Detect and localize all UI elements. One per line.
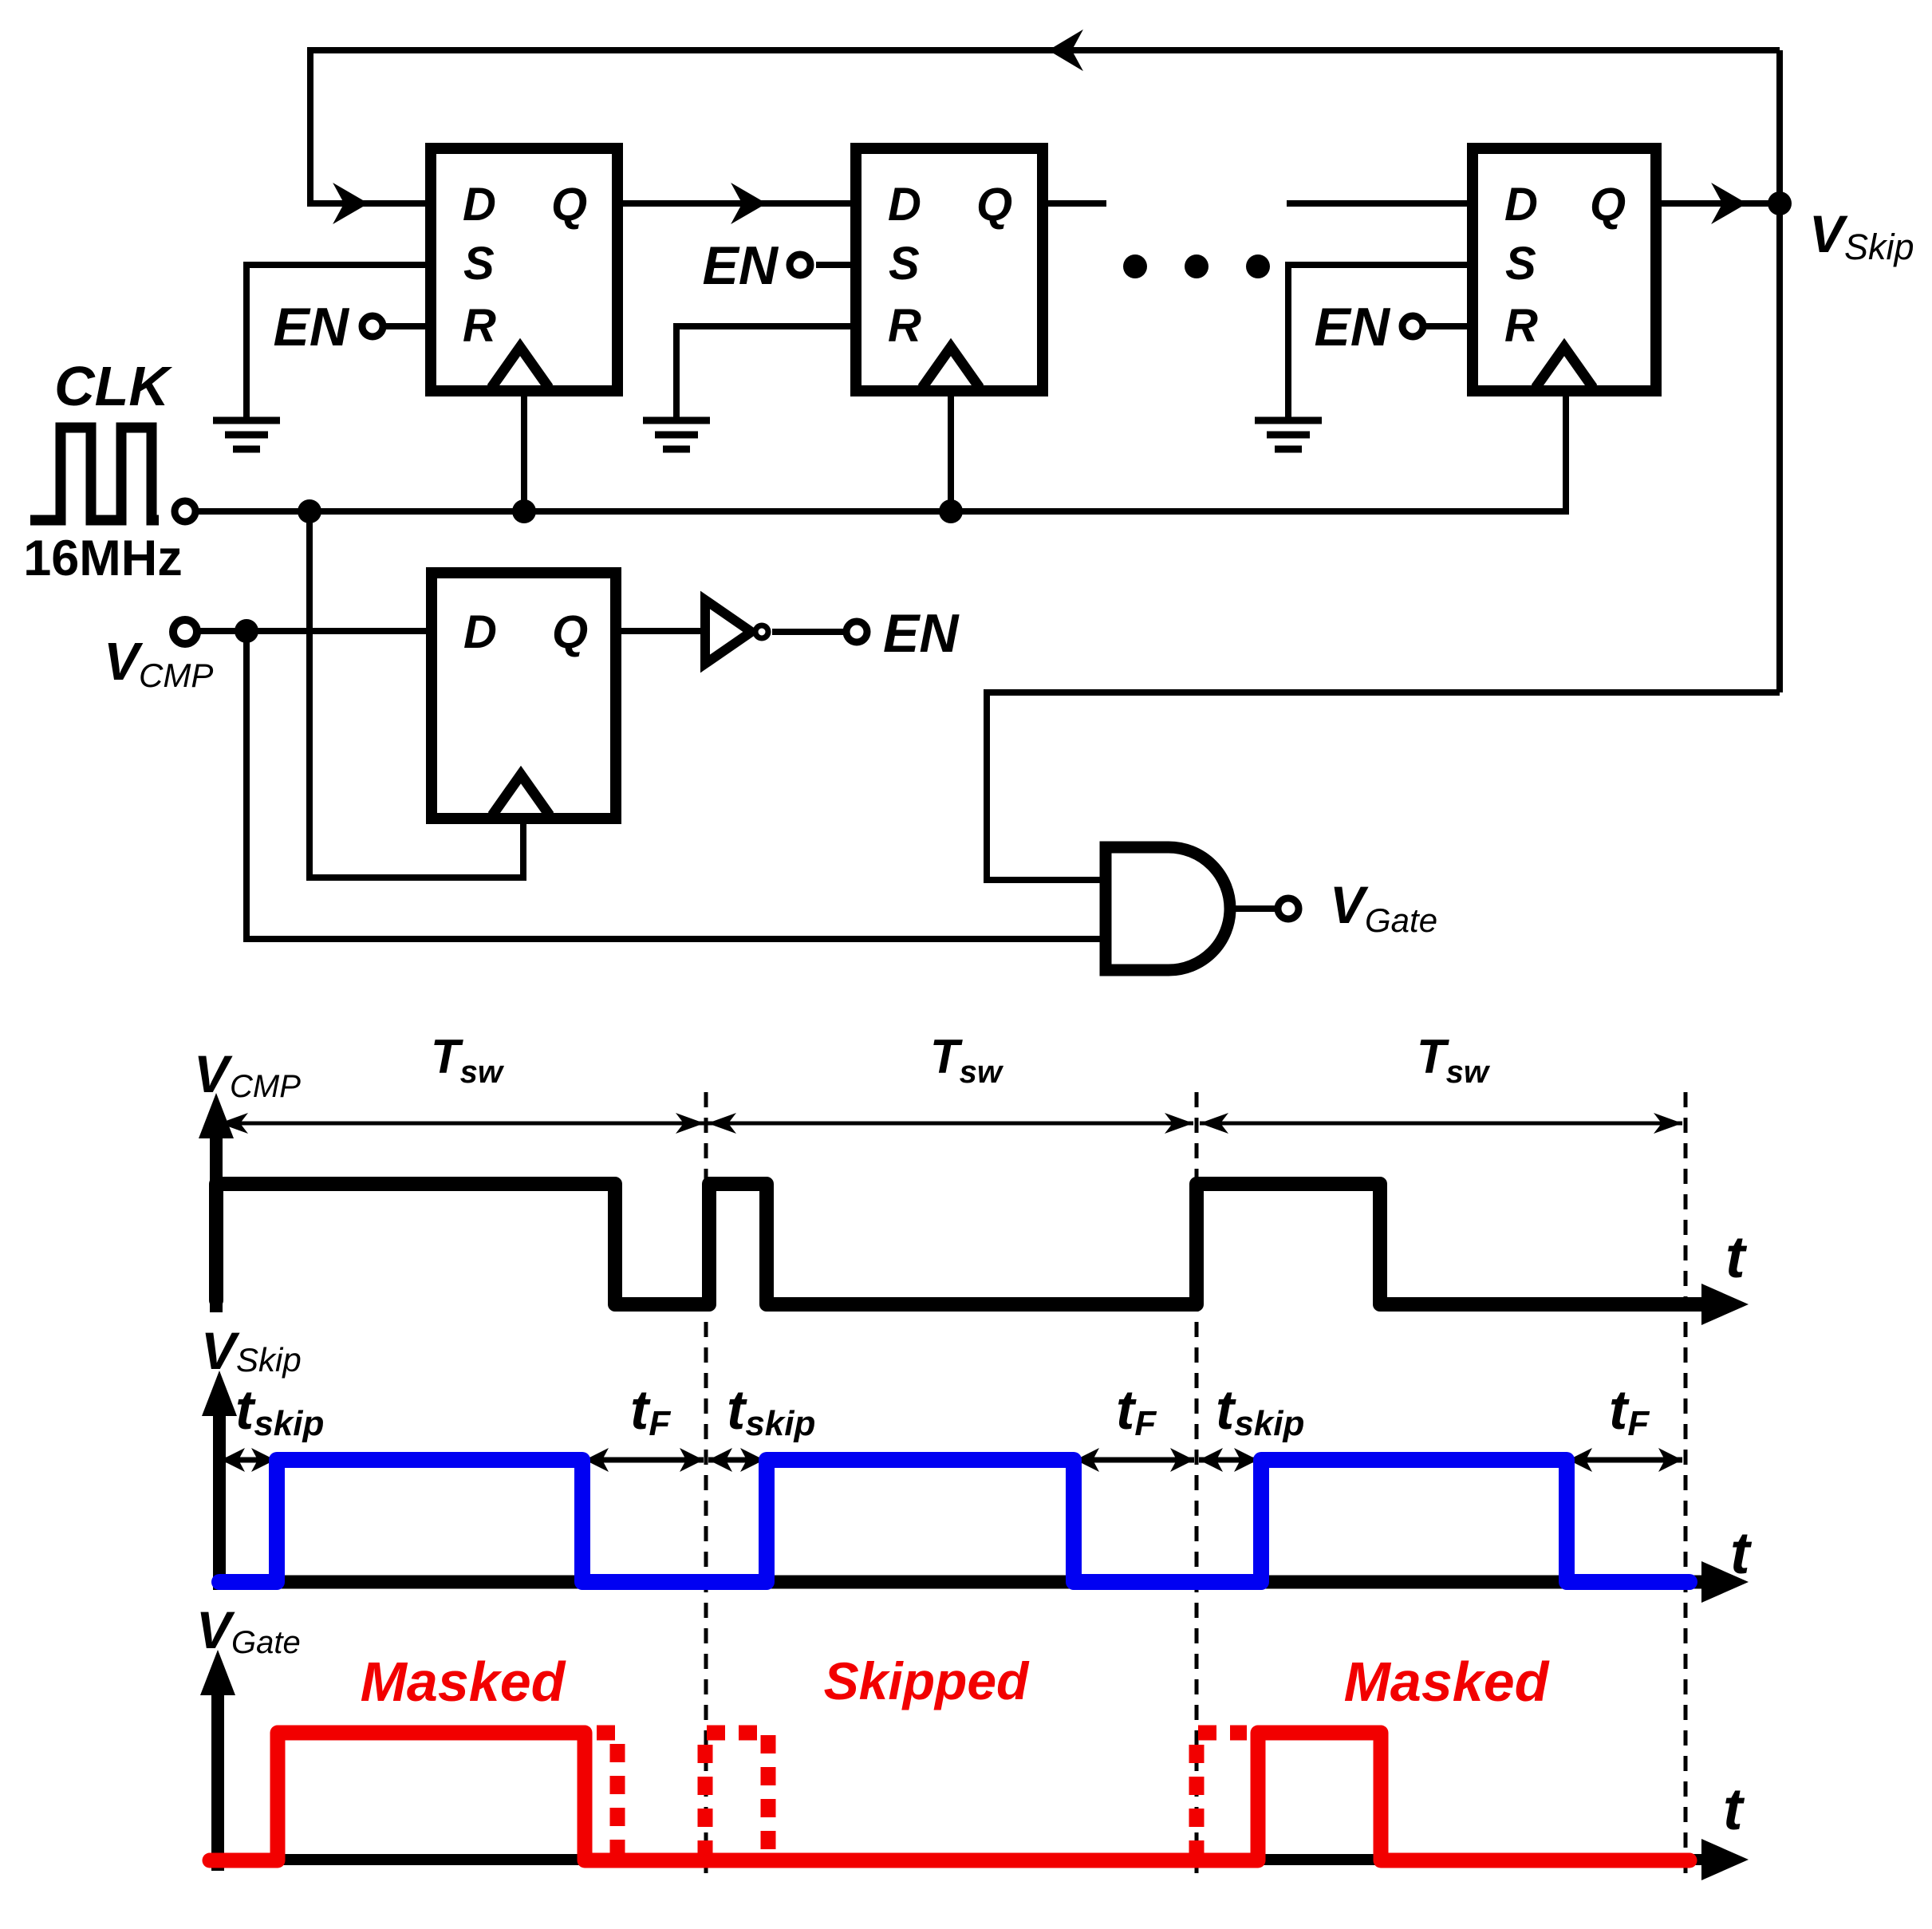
arrowhead on Q3 wire: [1714, 186, 1745, 221]
ground GND2: [643, 420, 710, 449]
svg-text:CLK: CLK: [54, 355, 172, 417]
svg-text:D: D: [1504, 179, 1538, 231]
VCMP time axis arrowhead: [1701, 1284, 1749, 1325]
Tsw dimension arrow 1: [219, 1122, 704, 1126]
svg-text:S: S: [889, 238, 920, 290]
svg-text:EN: EN: [274, 297, 350, 357]
VSkip time axis arrowhead: [1701, 1561, 1749, 1603]
tF dimension arrow 1: [585, 1458, 704, 1463]
inverter U1 triangle: [705, 600, 751, 664]
svg-text:R: R: [1504, 300, 1538, 352]
VGate output terminal circle: [1278, 898, 1299, 919]
FF3 clock triangle: [1536, 347, 1593, 388]
svg-text:Masked: Masked: [1344, 1651, 1550, 1713]
svg-text:EN: EN: [703, 235, 779, 296]
VGate dashed red: skipped pulse: [705, 1733, 768, 1859]
dashed timebase line 2: [1195, 1092, 1199, 1880]
NAND gate U2 body: [1106, 847, 1230, 970]
svg-text:Skip: Skip: [236, 1341, 302, 1379]
arrowhead into FF1 D (pointing right): [336, 186, 366, 221]
flip-flop FF3 box: [1473, 148, 1656, 391]
FF2 clock triangle: [922, 347, 980, 388]
tskip dimension arrow 1: [221, 1458, 275, 1463]
junction dot on CLK bus (branch down): [298, 499, 321, 523]
VSkip waveform (blue): [219, 1460, 1690, 1582]
VGate dashed red: masked rising edge: [1197, 1733, 1247, 1859]
svg-text:D: D: [463, 606, 497, 658]
VSkip vertical axis: [213, 1396, 226, 1590]
svg-text:EN: EN: [883, 603, 960, 664]
wire: FF2 Q output stub: [1047, 200, 1106, 207]
VGate time axis arrowhead: [1701, 1839, 1749, 1880]
svg-text:CMP: CMP: [139, 657, 213, 694]
svg-text:t: t: [1723, 1776, 1745, 1842]
junction dot: VCMP node: [235, 619, 258, 643]
VCMP input terminal circle: [173, 620, 197, 644]
flip-flop FF1 box: [431, 148, 617, 391]
arrowhead on Q1-D2 wire: [734, 186, 764, 221]
dashed timebase line 3: [1684, 1092, 1688, 1880]
Tsw dimension arrow 3: [1200, 1122, 1682, 1126]
VGate dashed red: masked falling edge: [597, 1733, 617, 1860]
ellipsis dots between FF2 and FF3: [1123, 254, 1147, 278]
tskip dimension arrow 2: [708, 1458, 764, 1463]
svg-text:S: S: [1505, 238, 1536, 290]
FF4 clock triangle: [492, 775, 550, 815]
svg-text:Q: Q: [551, 179, 587, 231]
svg-text:R: R: [888, 300, 921, 352]
Tsw dimension arrow 2: [708, 1122, 1193, 1126]
svg-text:16MHz: 16MHz: [23, 531, 183, 586]
VGate waveform solid (red): [210, 1733, 1690, 1860]
svg-text:t: t: [1725, 1224, 1748, 1290]
svg-text:Masked: Masked: [361, 1651, 566, 1713]
svg-text:Q: Q: [976, 179, 1012, 231]
svg-text:Skipped: Skipped: [824, 1651, 1030, 1710]
svg-text:V: V: [196, 1600, 235, 1659]
arrowhead on top feedback wire (pointing left): [1051, 33, 1080, 68]
svg-text:V: V: [201, 1321, 240, 1380]
wire: inverter to EN terminal: [772, 629, 844, 635]
svg-text:D: D: [888, 179, 921, 231]
FF1 clock triangle: [491, 347, 549, 388]
VSkip time axis (black baseline): [219, 1576, 1703, 1589]
wire: VSkip vertical (up to feedback, down to NAND branch): [1776, 50, 1783, 692]
svg-text:V: V: [1330, 875, 1369, 934]
svg-text:EN: EN: [1315, 297, 1391, 357]
svg-text:Gate: Gate: [1365, 901, 1437, 939]
wire: FF1 S to ground: [246, 265, 425, 417]
inverter U1 output bubble: [755, 625, 768, 638]
wire: into FF3 D: [1287, 200, 1467, 207]
CLK pulse symbol: [30, 428, 159, 520]
wire: VCMP to FF4 D: [199, 628, 426, 634]
svg-text:t: t: [1730, 1520, 1753, 1586]
wire: VSkip to NAND upper input: [987, 692, 1780, 880]
VCMP waveform: [216, 1184, 1703, 1304]
junction dot on CLK bus (FF2 clock): [939, 499, 963, 523]
VCMP vertical axis: [210, 1117, 223, 1312]
NAND output stub wire: [1231, 905, 1275, 912]
svg-text:V: V: [1809, 204, 1848, 263]
svg-text:D: D: [463, 179, 496, 231]
VGate time axis (black baseline): [218, 1854, 1703, 1865]
svg-text:V: V: [194, 1044, 233, 1103]
wire: FF2 R to ground: [676, 326, 850, 417]
wire: top feedback net from VSkip node to FF1 D: [310, 50, 1780, 203]
svg-text:Q: Q: [552, 606, 588, 658]
junction dot on CLK bus (FF1 clock): [512, 499, 536, 523]
wire: VCMP node down to NAND lower input: [246, 631, 1106, 939]
svg-text:S: S: [463, 238, 495, 290]
svg-text:V: V: [104, 632, 144, 692]
tskip dimension arrow 3: [1199, 1458, 1258, 1463]
svg-text:Skip: Skip: [1844, 227, 1914, 267]
tF dimension arrow 2: [1075, 1458, 1194, 1463]
flip-flop FF2 box: [856, 148, 1043, 391]
wire: FF3 S to ground: [1288, 265, 1467, 417]
svg-text:CMP: CMP: [230, 1069, 301, 1104]
svg-text:R: R: [463, 300, 496, 352]
EN output terminal circle: [846, 621, 867, 642]
flip-flop FF4 (EN generator) box: [432, 573, 616, 819]
wire: CLK to FF1 clock: [521, 396, 527, 511]
ground GND1: [213, 420, 280, 449]
wire: CLK to FF3 clock: [1563, 396, 1569, 515]
junction dot: VSkip node: [1768, 191, 1792, 215]
tF dimension arrow 3: [1568, 1458, 1682, 1463]
ground GND3: [1255, 420, 1322, 449]
wire: CLK branch down to FF4 clock: [310, 511, 523, 878]
CLK input terminal circle: [175, 501, 195, 522]
dashed timebase line 1: [704, 1092, 708, 1880]
wire: FF3 Q to VSkip node: [1662, 200, 1780, 207]
wire: CLK bus: [199, 508, 1569, 515]
wire: CLK to FF2 clock: [948, 396, 954, 511]
VGate vertical axis: [211, 1675, 224, 1871]
wire: FF1 Q to FF2 D: [623, 200, 850, 207]
svg-text:Gate: Gate: [231, 1625, 301, 1660]
wire: FF4 Q to inverter: [621, 628, 705, 634]
svg-text:Q: Q: [1590, 179, 1626, 231]
